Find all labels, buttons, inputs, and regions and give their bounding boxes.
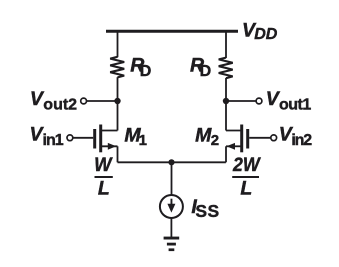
svg-text:Vout2: Vout2 xyxy=(30,88,77,113)
svg-text:W: W xyxy=(94,154,113,176)
svg-text:Vin1: Vin1 xyxy=(30,123,64,149)
svg-text:M2: M2 xyxy=(195,125,219,149)
svg-text:RD: RD xyxy=(190,54,211,80)
svg-text:ISS: ISS xyxy=(191,196,219,221)
svg-text:RD: RD xyxy=(130,54,151,80)
svg-text:Vout1: Vout1 xyxy=(266,88,312,114)
svg-text:L: L xyxy=(240,177,252,199)
svg-text:L: L xyxy=(98,177,110,199)
svg-text:Vin2: Vin2 xyxy=(279,123,312,149)
svg-text:M1: M1 xyxy=(124,125,147,149)
svg-text:VDD: VDD xyxy=(242,19,278,43)
svg-text:2W: 2W xyxy=(232,154,261,176)
